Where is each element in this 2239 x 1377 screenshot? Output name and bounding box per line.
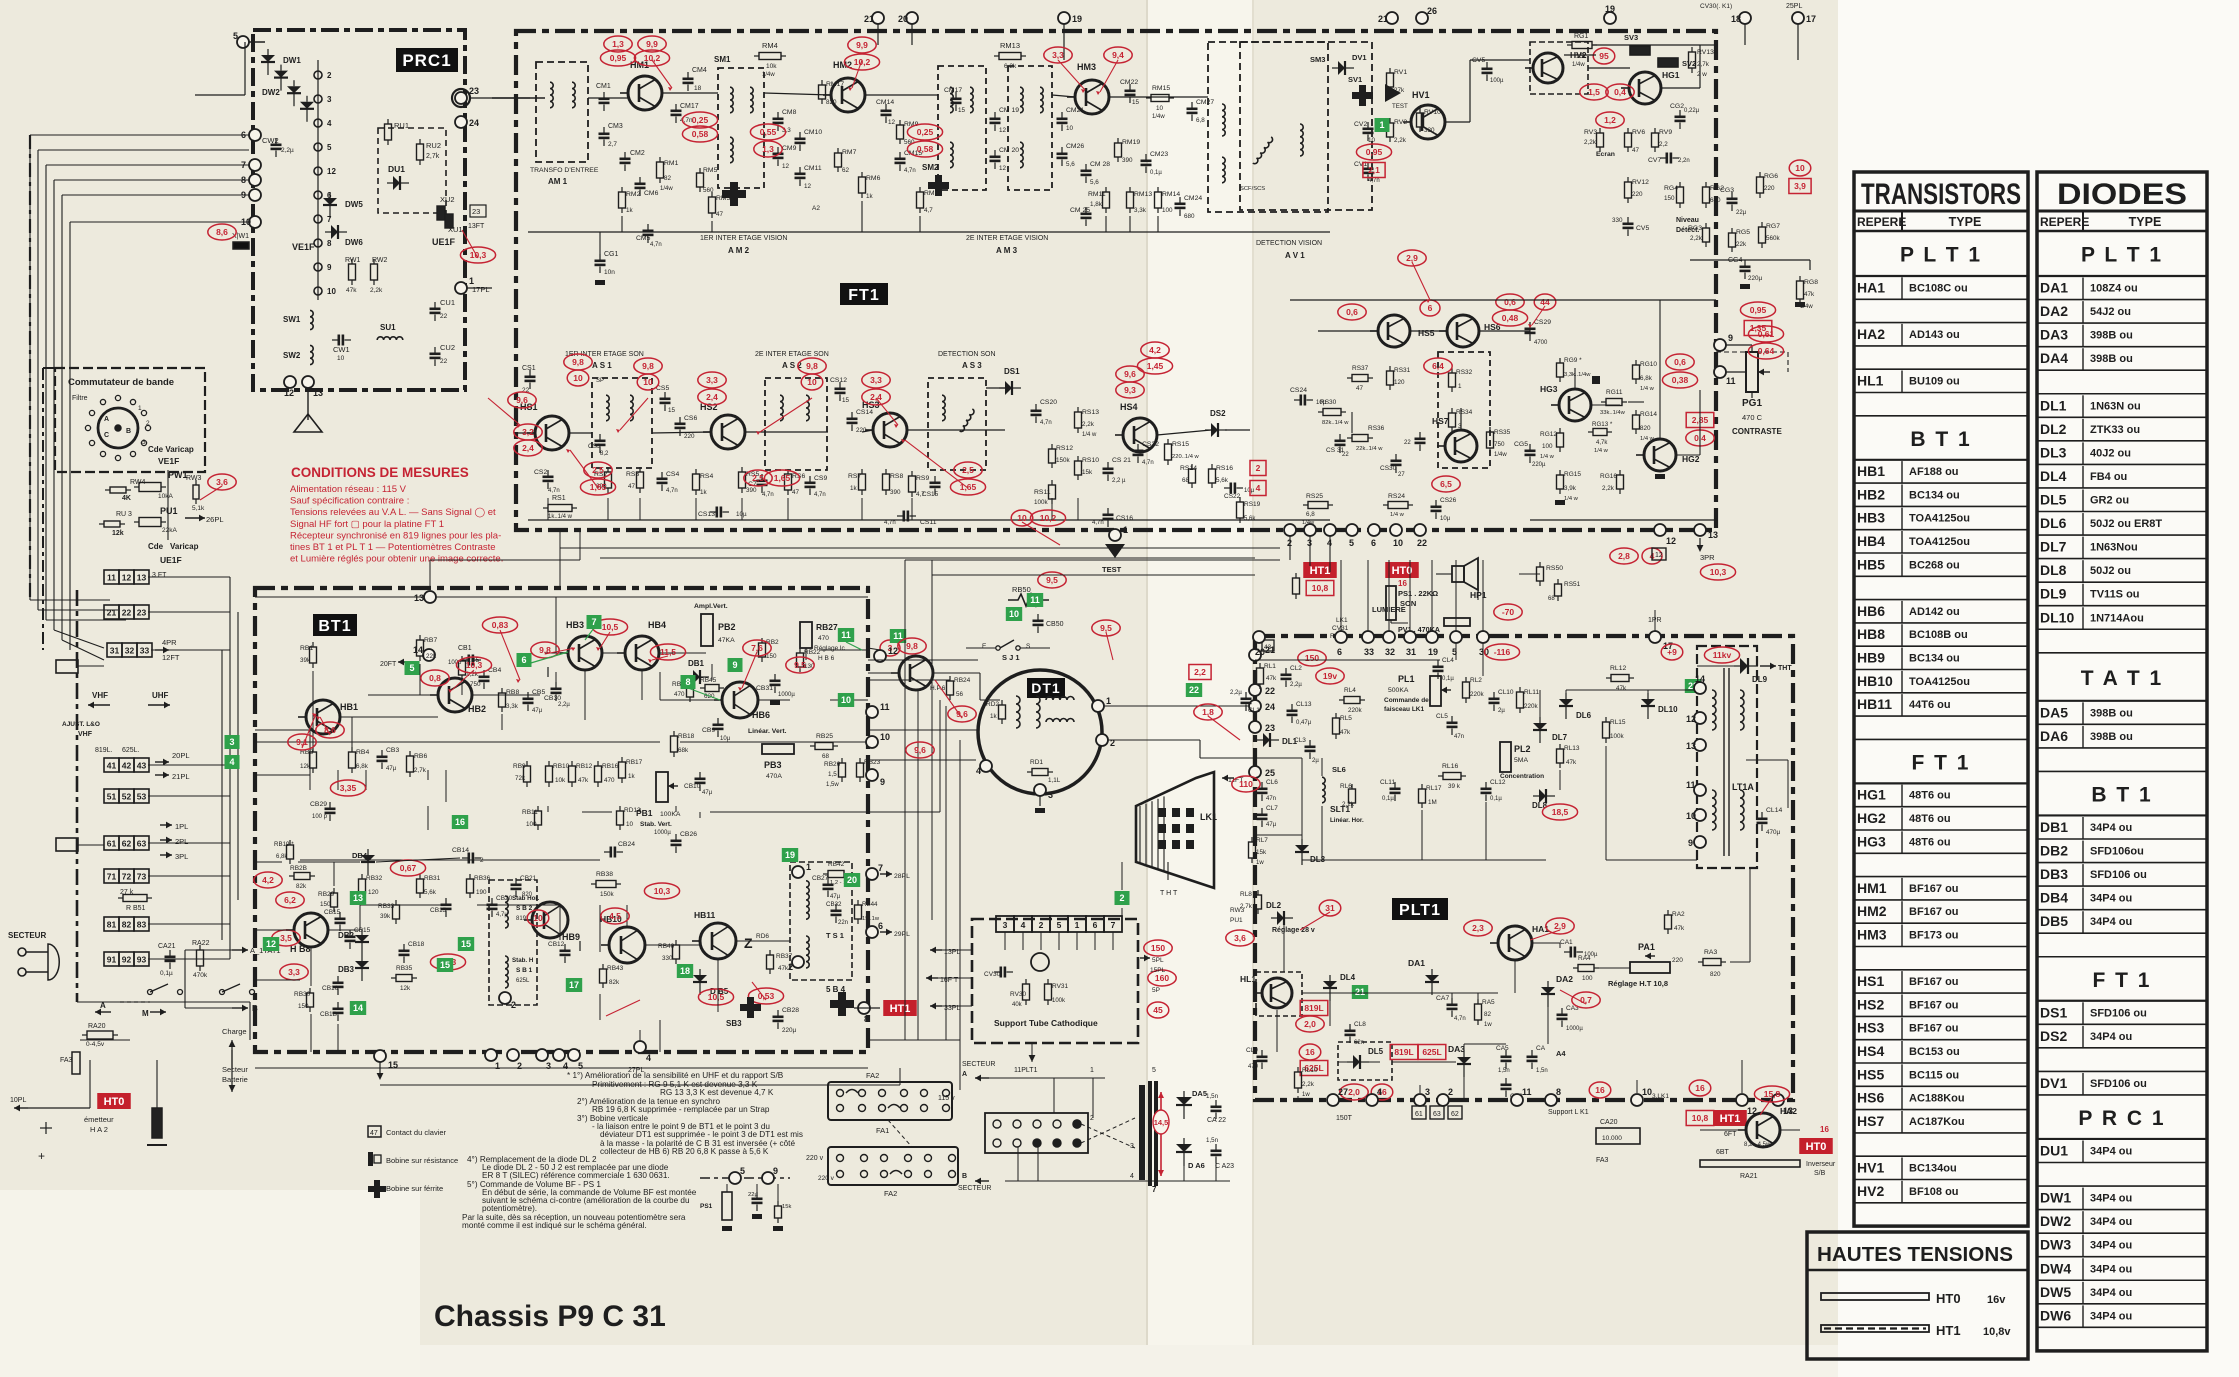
wire HS4 <box>1157 430 1211 435</box>
paper fold light strip <box>1148 0 1253 1377</box>
resistor RB45 <box>700 685 724 692</box>
wire det <box>1109 96 1208 98</box>
svg-text:63: 63 <box>137 839 147 849</box>
resistor RU2 <box>417 139 424 165</box>
svg-text:34P4 ou: 34P4 ou <box>2090 1146 2132 1158</box>
svg-text:9,9: 9,9 <box>646 39 658 49</box>
svg-text:12k: 12k <box>112 530 124 537</box>
svg-text:72k: 72k <box>515 775 526 782</box>
svg-text:10,8: 10,8 <box>1692 1113 1709 1123</box>
svg-text:HA2: HA2 <box>1780 1106 1797 1116</box>
svg-text:9,6: 9,6 <box>516 395 528 405</box>
svg-text:3PL: 3PL <box>175 852 188 861</box>
svg-text:CM 19: CM 19 <box>999 107 1019 114</box>
svg-text:21: 21 <box>1378 14 1388 24</box>
svg-text:Contact du clavier: Contact du clavier <box>386 1128 447 1137</box>
svg-text:CA20: CA20 <box>1600 1119 1618 1126</box>
svg-text:T H T: T H T <box>1160 890 1178 897</box>
svg-text:RW3: RW3 <box>186 475 202 482</box>
measure annotation 1,5 <box>1580 84 1608 100</box>
svg-text:3: 3 <box>229 737 234 747</box>
resistor RB42 <box>823 871 849 878</box>
svg-text:DA1: DA1 <box>1408 958 1425 968</box>
left margin <box>0 1190 420 1377</box>
svg-text:23: 23 <box>1265 723 1275 733</box>
coil TS1 coil b <box>806 936 809 968</box>
node 5 <box>233 31 249 48</box>
measure annotation 2,9 <box>1398 250 1426 266</box>
svg-text:HAUTES TENSIONS: HAUTES TENSIONS <box>1817 1244 2013 1266</box>
svg-text:1: 1 <box>1106 696 1111 706</box>
diode DA2 <box>1541 981 1555 1007</box>
wires BT1 bottom <box>255 930 718 1052</box>
coil SU1 <box>377 337 403 340</box>
diode DL7 <box>1533 717 1547 743</box>
svg-text:RB9: RB9 <box>513 763 526 770</box>
arrow 29PL <box>880 929 892 936</box>
measure annotation 9,8 <box>798 358 826 374</box>
resistor RB22 <box>797 648 804 672</box>
svg-text:RM13: RM13 <box>1134 191 1152 198</box>
svg-text:150k: 150k <box>600 891 615 898</box>
svg-text:CM4: CM4 <box>692 67 707 74</box>
measure annotation 150 <box>1144 940 1172 956</box>
svg-text:4,7n: 4,7n <box>1368 178 1380 184</box>
capacitor CS12 <box>835 382 846 401</box>
transistor HS2 <box>703 415 745 449</box>
svg-text:47: 47 <box>716 211 724 218</box>
svg-text:DL2: DL2 <box>2040 421 2067 437</box>
svg-text:14,5: 14,5 <box>1154 1118 1169 1127</box>
svg-text:RB17: RB17 <box>626 759 643 766</box>
svg-text:1k: 1k <box>850 485 858 492</box>
svg-text:92: 92 <box>122 955 132 965</box>
resistor RM12 <box>1127 187 1134 213</box>
svg-text:BF167 ou: BF167 ou <box>1909 906 1959 918</box>
wires BT1 row2 <box>255 730 700 843</box>
svg-text:RL8: RL8 <box>1240 891 1252 898</box>
wire vertical feed columns <box>905 560 960 1090</box>
svg-text:7: 7 <box>1111 920 1116 930</box>
measure annotation 0,55 <box>750 124 785 140</box>
svg-text:TV11S ou: TV11S ou <box>2090 589 2140 601</box>
arrow 33PL <box>930 1003 942 1010</box>
svg-text:RB50: RB50 <box>1012 585 1031 594</box>
rotary contacts <box>85 395 150 460</box>
node 4 <box>1366 1087 1382 1106</box>
svg-text:5: 5 <box>1349 538 1354 548</box>
svg-text:10: 10 <box>1686 811 1696 821</box>
PS1 note dashed rail <box>700 1177 790 1179</box>
svg-text:2: 2 <box>327 71 332 80</box>
diode DL3 <box>1295 839 1309 865</box>
svg-text:CM14: CM14 <box>876 99 894 106</box>
node 13 <box>302 376 323 398</box>
block RB27 <box>800 622 812 648</box>
svg-text:4: 4 <box>1021 920 1026 930</box>
svg-text:22k: 22k <box>1736 241 1747 248</box>
svg-text:RS34: RS34 <box>1456 409 1473 416</box>
resistor RS13 <box>1075 407 1082 433</box>
measure annotation 11,5 <box>650 644 685 660</box>
measure annotation 1,65 <box>580 479 615 495</box>
svg-text:4: 4 <box>563 1061 568 1071</box>
svg-text:RB18: RB18 <box>678 733 695 740</box>
svg-text:HB3: HB3 <box>1857 510 1885 526</box>
measure annotation 2,9 <box>1546 918 1574 934</box>
svg-text:31: 31 <box>110 646 120 656</box>
resistor RW2 <box>371 259 378 285</box>
measure annotation 2,4 <box>862 389 890 405</box>
SV2 box <box>1658 58 1678 67</box>
svg-text:DETECTION VISION: DETECTION VISION <box>1256 240 1322 247</box>
PL1 wiper <box>1441 687 1451 694</box>
svg-text:220 v: 220 v <box>818 1175 835 1182</box>
svg-text:47µ: 47µ <box>830 894 841 900</box>
svg-text:DU1: DU1 <box>388 164 405 174</box>
resistor RS8 <box>883 469 890 495</box>
capacitor CV7 <box>1660 153 1679 164</box>
svg-text:0,1µ: 0,1µ <box>1382 796 1394 802</box>
svg-text:22k: 22k <box>426 653 437 660</box>
resistor RB32 <box>359 874 366 898</box>
svg-text:33k..1/4w: 33k..1/4w <box>1600 410 1626 416</box>
svg-text:15k: 15k <box>1082 469 1093 476</box>
svg-text:10: 10 <box>1368 137 1376 144</box>
svg-text:B: B <box>252 1004 258 1013</box>
capacitor CM24 <box>1175 197 1186 216</box>
resistor RS11 <box>1049 480 1056 504</box>
svg-text:220: 220 <box>684 433 695 440</box>
svg-text:1,3: 1,3 <box>612 39 624 49</box>
measure annotation 4,5 <box>601 908 629 924</box>
svg-text:CU1: CU1 <box>440 298 455 307</box>
measure annotation 0,83 <box>482 617 517 633</box>
resistor RB12 <box>569 761 576 787</box>
svg-text:625L: 625L <box>516 978 530 984</box>
svg-text:1,1L: 1,1L <box>1048 777 1061 784</box>
transistor HM2 <box>823 78 865 112</box>
resistor RB33 <box>393 900 400 924</box>
svg-text:1000µ: 1000µ <box>1566 1026 1583 1032</box>
svg-text:BC268 ou: BC268 ou <box>1909 559 1960 571</box>
svg-text:CB14: CB14 <box>452 847 469 854</box>
arrow secteur batterie down <box>231 1050 233 1092</box>
svg-text:RA22: RA22 <box>192 940 210 947</box>
capacitor CG1 <box>595 254 606 273</box>
node 33 <box>1362 631 1374 657</box>
svg-text:BC134 ou: BC134 ou <box>1909 489 1960 501</box>
transistor HB1 <box>298 700 340 734</box>
svg-text:CS20: CS20 <box>1040 399 1057 406</box>
svg-text:0,25: 0,25 <box>917 127 934 137</box>
svg-text:6,5: 6,5 <box>1440 479 1452 489</box>
svg-text:1,5n: 1,5n <box>1498 1068 1510 1074</box>
svg-text:10: 10 <box>880 732 890 742</box>
transformer terminals <box>993 1120 1081 1147</box>
svg-text:RB27: RB27 <box>816 622 838 632</box>
svg-text:HB1: HB1 <box>1857 463 1885 479</box>
svg-text:1/4w: 1/4w <box>1572 62 1585 68</box>
node 10 <box>241 216 261 228</box>
svg-text:3,35: 3,35 <box>340 783 357 793</box>
svg-text:RS36: RS36 <box>1368 425 1385 432</box>
keypad 71-72-73 <box>104 869 149 883</box>
cross SV1 <box>1352 85 1373 106</box>
svg-text:HM2: HM2 <box>833 60 852 70</box>
node 12 <box>1654 524 1676 546</box>
measure annotation 45 <box>1147 1002 1169 1018</box>
DV1 SM3 box <box>1240 42 1372 210</box>
svg-text:RB4: RB4 <box>356 749 369 756</box>
svg-text:4: 4 <box>327 119 332 128</box>
capacitor CM4 <box>683 72 694 91</box>
ground <box>595 280 605 285</box>
svg-text:RG10: RG10 <box>1640 361 1657 368</box>
svg-text:CB24: CB24 <box>618 841 635 848</box>
capacitor CM25 <box>1081 207 1092 226</box>
measure annotation 9,5 <box>1092 620 1120 636</box>
node 3 <box>314 95 332 104</box>
svg-text:Réglage 28 v: Réglage 28 v <box>1272 927 1315 934</box>
svg-text:BC134 ou: BC134 ou <box>1909 653 1960 665</box>
svg-text:20: 20 <box>1255 647 1265 657</box>
capacitor CB18 <box>399 944 410 963</box>
svg-text:2µ: 2µ <box>1498 708 1505 714</box>
transistor HS5 <box>1370 315 1410 347</box>
svg-text:3: 3 <box>1130 1143 1134 1150</box>
capacitor CM11 <box>795 167 806 186</box>
svg-text:RL12: RL12 <box>1610 665 1626 672</box>
node 9 <box>241 189 261 201</box>
svg-text:220 v: 220 v <box>806 1155 824 1162</box>
svg-text:10: 10 <box>1795 163 1805 173</box>
svg-text:15PL: 15PL <box>1150 967 1166 974</box>
svg-text:9,8: 9,8 <box>572 357 584 367</box>
svg-text:B T 1: B T 1 <box>2091 783 2152 806</box>
resistor RS9 <box>909 471 916 497</box>
svg-text:DIODES: DIODES <box>2057 178 2187 211</box>
svg-text:HB4: HB4 <box>648 620 666 630</box>
resistor RG11 <box>1601 399 1627 406</box>
arrow 20FT <box>398 659 412 666</box>
svg-text:6,4: 6,4 <box>1432 361 1444 371</box>
measure annotation 2 <box>1250 461 1266 476</box>
svg-text:398B ou: 398B ou <box>2090 353 2133 365</box>
svg-text:11,5: 11,5 <box>660 647 676 657</box>
svg-text:16: 16 <box>1305 1047 1315 1057</box>
svg-text:10: 10 <box>1009 609 1019 619</box>
svg-text:680: 680 <box>1184 213 1195 220</box>
svg-text:20: 20 <box>847 875 857 885</box>
node 3 <box>1034 784 1053 800</box>
capacitor CS11 <box>897 511 916 522</box>
svg-text:19: 19 <box>1605 4 1615 14</box>
svg-text:47k: 47k <box>1566 759 1577 766</box>
capacitor CS20 <box>1031 404 1042 423</box>
capacitor CB24 <box>604 847 623 858</box>
svg-text:TEST: TEST <box>1102 565 1122 574</box>
capacitor CG2 <box>1675 110 1686 129</box>
svg-text:CB30: CB30 <box>544 695 561 702</box>
transistors row blank <box>1854 969 2028 971</box>
node 13 <box>414 591 436 603</box>
node 11 <box>866 702 890 718</box>
annotation 16e <box>1689 1080 1711 1096</box>
svg-text:6: 6 <box>1428 303 1433 313</box>
keyboard contact 15b <box>437 958 453 972</box>
svg-text:9,6: 9,6 <box>1124 369 1136 379</box>
svg-text:0,8: 0,8 <box>429 673 441 683</box>
svg-text:4: 4 <box>646 1053 651 1063</box>
wire left arrows <box>942 949 972 951</box>
svg-text:DV1: DV1 <box>1352 53 1367 62</box>
measure annotation 0,95 <box>1356 144 1391 160</box>
svg-text:RB19 *: RB19 * <box>274 841 294 848</box>
coil AS2 coil a <box>780 395 783 421</box>
diode DW1 <box>261 49 275 75</box>
svg-text:12: 12 <box>284 388 294 398</box>
node 2 <box>499 992 516 1010</box>
capacitor CS2 <box>543 470 554 489</box>
svg-text:Alimentation réseau : 115 V: Alimentation réseau : 115 V <box>290 484 407 495</box>
svg-text:16: 16 <box>455 817 465 827</box>
svg-text:FA3: FA3 <box>60 1057 73 1064</box>
svg-text:1,5n: 1,5n <box>1206 1093 1219 1100</box>
capacitor CS22 <box>1224 483 1243 494</box>
svg-text:Filtre: Filtre <box>72 395 88 402</box>
svg-text:T A T 1: T A T 1 <box>2081 667 2163 690</box>
wire PLT1 HT rail <box>1338 1061 1380 1063</box>
wire tuner top <box>244 42 246 95</box>
svg-text:390: 390 <box>746 487 757 494</box>
coil SW2 <box>310 345 313 364</box>
wire parallel below FT1 b <box>600 557 1255 559</box>
svg-text:6,2: 6,2 <box>284 895 296 905</box>
transformer winding bar <box>1139 1085 1145 1180</box>
wire tuner horizontals <box>30 135 249 660</box>
node 6 <box>1335 631 1347 657</box>
svg-text:SW2: SW2 <box>283 351 301 360</box>
diode DW4 <box>300 96 314 122</box>
svg-text:S J 1: S J 1 <box>1002 653 1020 662</box>
svg-text:HS7: HS7 <box>1432 416 1449 426</box>
svg-text:2PL: 2PL <box>175 837 188 846</box>
svg-text:CV2: CV2 <box>1354 121 1367 128</box>
capacitor CL5 <box>1447 716 1458 735</box>
svg-text:VHF: VHF <box>92 691 108 700</box>
svg-text:3: 3 <box>327 95 332 104</box>
measure annotation 0,64 <box>1748 343 1783 359</box>
svg-text:100KA: 100KA <box>660 811 681 818</box>
svg-text:Bobine sur résistance: Bobine sur résistance <box>386 1156 458 1165</box>
svg-text:RL5: RL5 <box>1340 715 1352 722</box>
capacitor CA5 <box>1501 1050 1512 1069</box>
measure annotation 10,5 <box>698 989 733 1005</box>
svg-text:10,3: 10,3 <box>470 250 487 260</box>
svg-text:2,5: 2,5 <box>962 465 974 475</box>
svg-text:CB26: CB26 <box>680 831 697 838</box>
svg-text:CS6: CS6 <box>684 415 697 422</box>
arrow <box>88 702 110 709</box>
mains plug <box>18 944 59 980</box>
svg-text:54J2 ou: 54J2 ou <box>2090 306 2131 318</box>
svg-text:RG 13 3,3 K est devenue: RG 13 3,3 K est devenue 4,7 K <box>660 1088 774 1097</box>
svg-text:CV30: CV30 <box>984 971 1001 978</box>
svg-text:CM8: CM8 <box>782 109 797 116</box>
svg-text:CM11: CM11 <box>804 165 822 172</box>
capacitor CL12 <box>1481 782 1492 801</box>
resistor RS1 <box>543 505 577 512</box>
annotation 22 <box>1186 683 1202 697</box>
keyboard contact 20 <box>844 873 860 887</box>
svg-text:DW2: DW2 <box>2040 1213 2071 1229</box>
svg-text:HV1: HV1 <box>1857 1160 1884 1176</box>
svg-text:-70: -70 <box>1502 607 1515 617</box>
svg-text:73: 73 <box>137 872 147 882</box>
svg-text:820: 820 <box>1710 971 1721 978</box>
svg-text:R B51: R B51 <box>126 905 146 912</box>
measure annotation 10,2 <box>844 54 879 70</box>
svg-text:DW6: DW6 <box>2040 1307 2071 1323</box>
keyboard contact 2 <box>1115 891 1130 905</box>
net HT0 plt <box>1799 1138 1833 1154</box>
net HT1 plt <box>1713 1110 1747 1126</box>
transistor HS4 <box>1115 418 1157 452</box>
svg-text:8: 8 <box>1556 1087 1561 1097</box>
svg-text:SFD106ou: SFD106ou <box>2090 846 2144 858</box>
arrow 5PL <box>1140 955 1150 962</box>
resistor RM4 <box>754 53 786 60</box>
svg-text:RB44: RB44 <box>862 901 878 908</box>
resistor RS3 <box>637 467 644 493</box>
svg-text:100: 100 <box>526 821 537 828</box>
resistor RB5 <box>459 656 466 680</box>
measure annotation 0,6 <box>1338 304 1366 320</box>
svg-text:CL8: CL8 <box>1354 1021 1366 1028</box>
svg-text:3,9k: 3,9k <box>1564 485 1577 492</box>
capacitor CU2 <box>430 347 441 366</box>
svg-text:12: 12 <box>266 939 276 949</box>
capacitor CL4 <box>1433 660 1444 679</box>
capacitor CG3 <box>1727 192 1738 211</box>
wire battery area <box>77 1002 250 1108</box>
measure annotation 10,3 <box>644 883 679 899</box>
pot PB3 <box>762 744 794 754</box>
capacitor CL2 <box>1281 668 1292 687</box>
svg-text:71: 71 <box>107 872 117 882</box>
svg-text:220µ: 220µ <box>1532 462 1546 468</box>
svg-text:1,5: 1,5 <box>828 771 837 778</box>
svg-text:PL2: PL2 <box>1514 744 1531 754</box>
svg-text:1/4 w: 1/4 w <box>1640 386 1655 392</box>
keyboard contact 4 <box>225 755 240 769</box>
svg-text:RL13: RL13 <box>1564 745 1580 752</box>
svg-text:5: 5 <box>409 663 414 673</box>
IF can SM2 coils <box>938 66 986 190</box>
svg-text:DA5: DA5 <box>2040 704 2068 720</box>
measure annotation 10,3 <box>1700 564 1735 580</box>
annotation 16d <box>1589 1082 1611 1098</box>
svg-text:2,2k: 2,2k <box>1584 139 1597 146</box>
svg-text:collecteur de HB 6) RB 20: collecteur de HB 6) RB 20 6,8 K passe à … <box>600 1147 769 1156</box>
svg-text:RD1: RD1 <box>1030 759 1043 766</box>
svg-text:23: 23 <box>469 86 479 96</box>
svg-text:47µ: 47µ <box>702 790 713 796</box>
svg-text:T S 1: T S 1 <box>826 931 844 940</box>
resistor RB4 <box>349 747 356 773</box>
svg-text:4,7: 4,7 <box>924 207 933 214</box>
